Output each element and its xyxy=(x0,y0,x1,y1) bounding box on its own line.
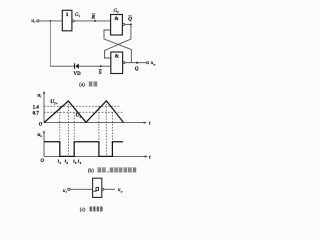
dashed vertical peak2 xyxy=(105,101,107,156)
dashed vertical peak1 xyxy=(68,101,70,156)
svg-text:o: o xyxy=(40,134,42,138)
svg-text:Q: Q xyxy=(128,17,132,23)
svg-text:&: & xyxy=(115,54,120,60)
wire feedback Q to G2 input xyxy=(104,30,131,63)
wire diode to G3 input xyxy=(79,65,111,67)
svg-text:1.4: 1.4 xyxy=(33,106,40,111)
svg-text:(c): (c) xyxy=(80,208,86,213)
caption (a) xyxy=(79,82,97,89)
junction branch dot xyxy=(50,20,52,22)
svg-text:0.7: 0.7 xyxy=(33,111,40,116)
wire G2 output to Qbar node xyxy=(125,23,131,25)
inverter G1 xyxy=(62,10,80,31)
label t3 xyxy=(73,160,77,165)
wire ui to symbol box xyxy=(70,188,93,190)
waveform uo square xyxy=(44,142,123,157)
node ui terminal (c) xyxy=(63,188,70,194)
node R bar xyxy=(92,14,96,22)
svg-text:1: 1 xyxy=(59,161,61,165)
nand gate G3 xyxy=(111,52,125,74)
svg-text:Q: Q xyxy=(135,66,139,72)
label t1 xyxy=(58,160,62,165)
svg-text:&: & xyxy=(114,16,119,22)
svg-text:R: R xyxy=(92,14,96,20)
svg-text:i: i xyxy=(66,190,67,194)
svg-text:1: 1 xyxy=(66,12,69,18)
node Q xyxy=(135,62,139,72)
axis ui horizontal t xyxy=(39,121,151,127)
axis uo vertical xyxy=(37,130,45,156)
svg-text:O: O xyxy=(41,159,45,164)
svg-text:VD: VD xyxy=(74,72,82,77)
dashed vertical t3 xyxy=(98,106,100,156)
node Q bar xyxy=(128,16,132,26)
svg-text:t: t xyxy=(149,121,151,126)
svg-text:T+: T+ xyxy=(54,101,58,105)
svg-text:4: 4 xyxy=(80,161,82,165)
dashed level 1.4 xyxy=(44,105,121,107)
caption (b) xyxy=(63,168,137,214)
caption (c) xyxy=(80,207,103,214)
nand gate G2 xyxy=(111,8,125,35)
wire symbol to uo xyxy=(104,188,115,190)
node ui input terminal xyxy=(31,18,39,24)
svg-text:i: i xyxy=(34,20,35,24)
dashed vertical t1 xyxy=(59,106,61,156)
svg-text:t: t xyxy=(149,156,151,161)
label t2 xyxy=(65,160,69,165)
axis uo horizontal t xyxy=(41,155,152,164)
svg-text:2: 2 xyxy=(66,161,68,165)
dashed vertical t4 xyxy=(111,112,113,156)
axis ui vertical xyxy=(37,91,45,123)
wire branch down to diode row xyxy=(49,21,51,66)
svg-text:2: 2 xyxy=(117,10,119,14)
wire diode row left xyxy=(50,65,74,67)
wire G1 output to G2 xyxy=(74,20,110,22)
dashed level 0.7 xyxy=(44,111,123,113)
waveform ui triangle xyxy=(44,101,123,123)
dashed vertical t2 xyxy=(73,112,75,156)
wire G3 output to uo xyxy=(125,62,147,64)
label UT+ xyxy=(50,99,58,105)
diode VD xyxy=(74,63,82,77)
node uo output terminal xyxy=(147,60,156,66)
svg-text:3: 3 xyxy=(75,161,77,165)
svg-text:O: O xyxy=(39,123,43,128)
svg-text:i: i xyxy=(40,95,41,99)
label t4 xyxy=(78,160,82,165)
svg-text:S: S xyxy=(99,70,102,76)
label UT- xyxy=(76,113,82,119)
svg-text:o: o xyxy=(154,62,156,66)
node S bar xyxy=(99,65,102,76)
wire feedback Qbar to G3 input xyxy=(105,24,131,58)
svg-text:o: o xyxy=(121,189,123,193)
svg-text:T-: T- xyxy=(79,115,82,119)
svg-text:(b): (b) xyxy=(88,169,94,174)
svg-text:(a): (a) xyxy=(79,83,85,88)
node uo label (c) xyxy=(118,187,123,193)
schmitt symbol U1 xyxy=(93,178,104,197)
svg-text:1: 1 xyxy=(78,14,80,18)
wire ui to G1 xyxy=(39,20,62,22)
